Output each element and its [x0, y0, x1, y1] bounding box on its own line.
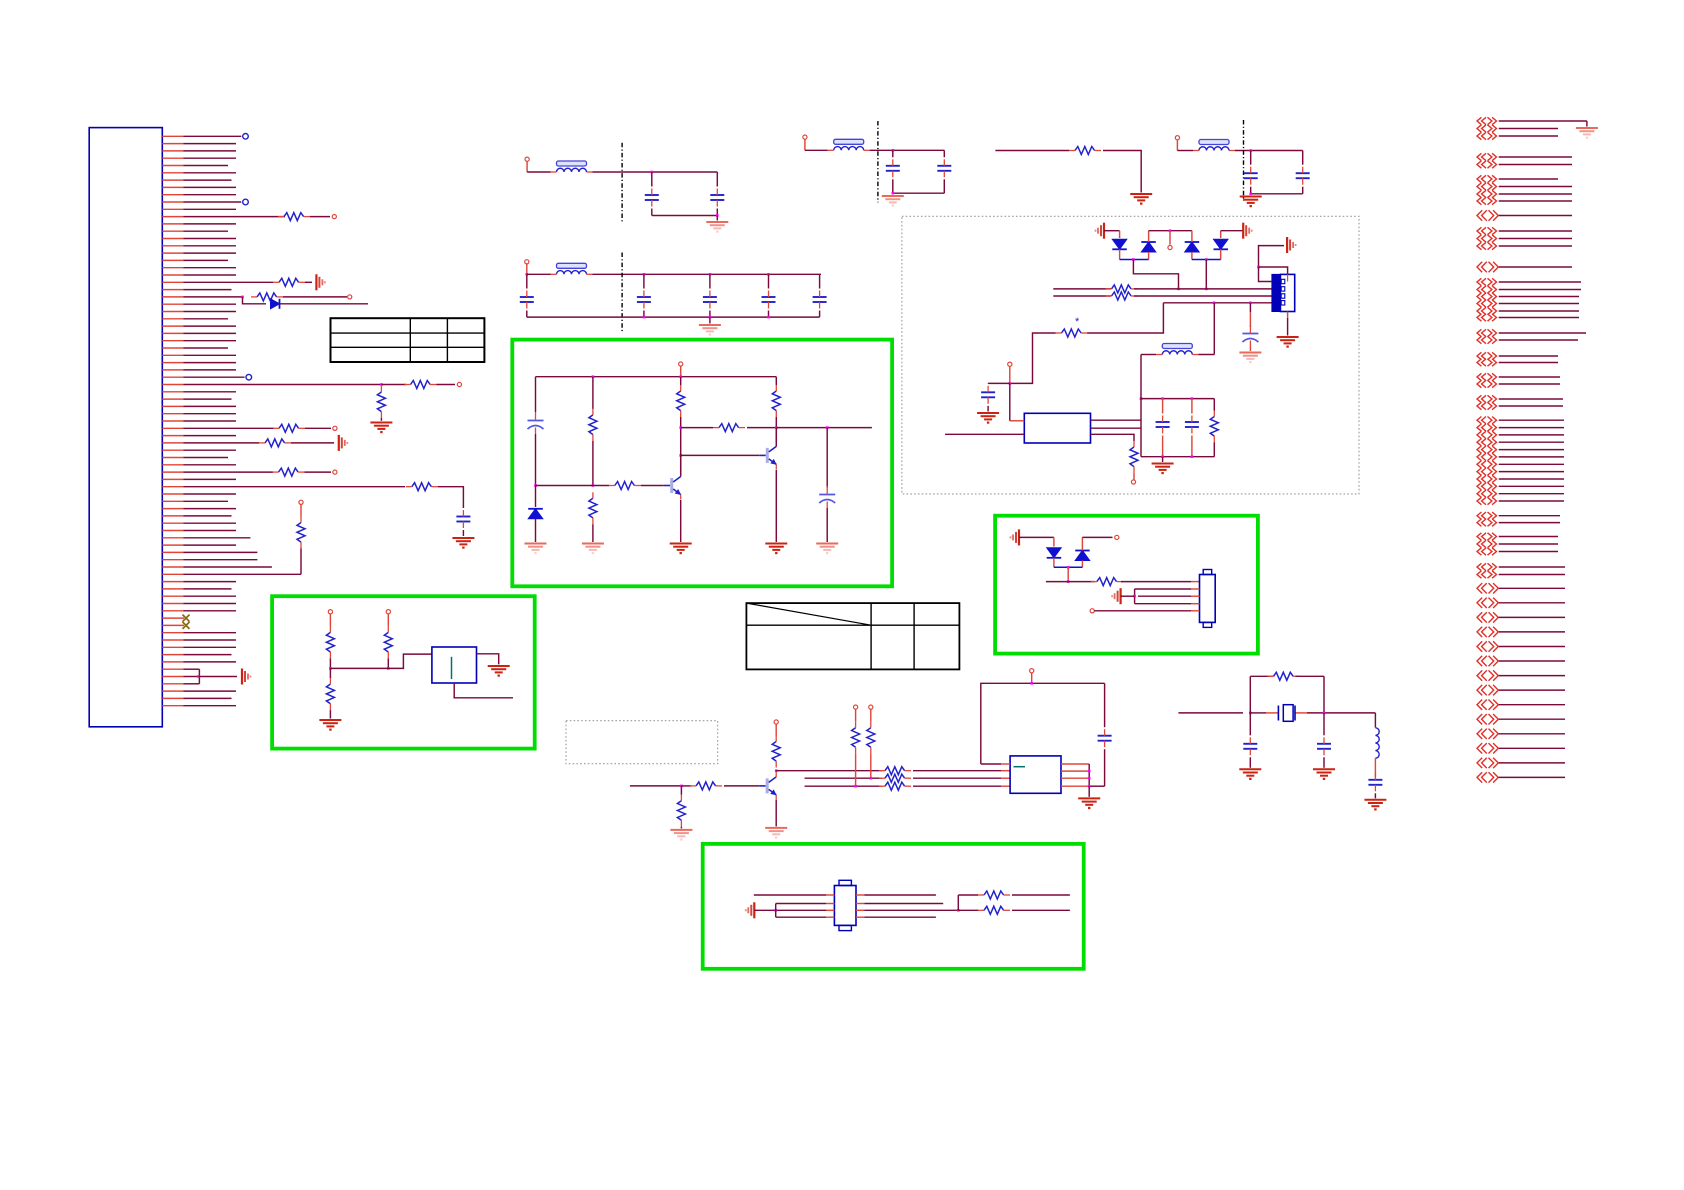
Q1 emitter wire [680, 500, 682, 542]
D6 top wire [1082, 536, 1112, 538]
node reg A [329, 667, 332, 670]
reg B stub [387, 614, 389, 627]
pin 75 wire [162, 676, 183, 678]
C6 leads [768, 274, 770, 288]
offpage port 10 [1477, 210, 1482, 220]
inductor branch vert [1374, 713, 1376, 728]
bead right vert [1213, 303, 1215, 355]
node amp left [534, 484, 537, 487]
pin 10 wire [162, 201, 183, 203]
pin 13 wire [162, 223, 183, 225]
ground Q3 [765, 827, 787, 829]
resistor RC2 [772, 391, 780, 411]
node U3 o2 [1088, 770, 1091, 773]
ground F3 [882, 195, 904, 197]
C-AGC top lead [987, 382, 989, 384]
C8 leads [892, 150, 894, 157]
ground tuner bottom [1277, 336, 1299, 338]
diode DA [528, 509, 543, 519]
C-IF3 gnd lead [1249, 347, 1251, 351]
pin 76 wire [162, 683, 183, 685]
offpage port 60 [1477, 758, 1482, 768]
D5 bottom lead [1053, 558, 1055, 568]
ground C-AGC [977, 412, 999, 414]
AV pair drop [1067, 567, 1069, 581]
green frame amp [512, 340, 892, 587]
pin 61 wire [162, 573, 183, 575]
ground RG lower [319, 719, 341, 721]
resistor bus1 [1112, 285, 1132, 293]
RQ3 pd leads [680, 786, 682, 795]
terminal pullup2 [869, 705, 873, 709]
U3 loop right vert [1104, 683, 1106, 727]
RB to base wire [641, 485, 664, 487]
ferrite bead FB4 [1199, 140, 1229, 145]
offpage port 51 [1477, 627, 1482, 637]
amp out wire [776, 427, 872, 429]
tuner connector pin 4 [1281, 301, 1285, 305]
D2 leads [1148, 231, 1150, 242]
crystal X1 [1283, 705, 1293, 722]
green frame AV [995, 516, 1258, 654]
offpage port 47 [1477, 571, 1481, 578]
pin 35 wire [162, 384, 183, 386]
node U3 VCC [1030, 682, 1033, 685]
resistor IF out [1130, 447, 1138, 467]
ferrite bead FB2 [557, 263, 587, 268]
tuner gnd wire [1259, 246, 1285, 267]
capacitor C7 [813, 296, 827, 298]
amp base wire [536, 485, 610, 487]
D4 leads [1220, 231, 1222, 238]
pin 59 wire [162, 559, 183, 561]
node reg B [387, 667, 390, 670]
offpage port 45 [1477, 548, 1481, 555]
SAW in2 wire [776, 903, 826, 905]
offpage port 31 [1477, 431, 1481, 438]
node Q1 coll [679, 454, 682, 457]
node AGC [1009, 382, 1012, 385]
C4 leads [643, 274, 645, 288]
offpage port 58 [1477, 729, 1482, 739]
node pair2 [1205, 258, 1208, 261]
LC gnd stub [1162, 457, 1164, 462]
node F2 r2 [709, 273, 712, 276]
AV pin4 wire [1135, 603, 1191, 605]
bus wire B2 [805, 777, 882, 779]
signal ground SAW [753, 902, 755, 918]
terminal pin 41 [333, 426, 337, 430]
terminal pin 34 [246, 374, 252, 380]
tuner gnd branch B [1259, 267, 1272, 282]
terminal U3 VCC [1030, 669, 1034, 673]
U3 loop left pin [981, 763, 1001, 765]
resistor RP1 [852, 728, 860, 748]
node SAW gnd [774, 909, 777, 912]
amp top rail [536, 376, 777, 378]
pin 21 wire [162, 281, 183, 283]
offpage port 54 [1477, 670, 1482, 680]
node F2 b1 [643, 316, 646, 319]
cap CO lead [826, 428, 828, 488]
offpage port 20 [1477, 314, 1481, 321]
bus wire IF2 [1053, 295, 1111, 297]
pair1 bottom wire [1120, 259, 1149, 261]
offpage port 37 [1477, 475, 1481, 482]
ground CX3 [1364, 799, 1386, 801]
capacitor LC1 [1156, 421, 1170, 423]
D1 bottom lead [1119, 249, 1121, 259]
offpage port 34 [1477, 453, 1481, 460]
resistor RC1 [677, 391, 685, 411]
Q3 input wire [630, 785, 682, 787]
RS1 out wire [1012, 894, 1070, 896]
F2 gnd stub [709, 317, 711, 323]
LC res leads [1213, 399, 1215, 411]
offpage port 8 [1477, 190, 1481, 197]
separator dashed line [621, 143, 623, 224]
resistor RB1 [885, 767, 905, 775]
bus wire B3b [913, 785, 1001, 787]
resistor on pin 47 [279, 468, 299, 476]
pin 30 wire [162, 347, 183, 349]
pin 52 wire [162, 508, 183, 510]
pin 77 wire [162, 690, 183, 692]
connector P1 outline [89, 128, 162, 727]
node LC rail left [1140, 397, 1143, 400]
terminal pin 10 [243, 199, 249, 205]
SAW bracket [775, 904, 777, 918]
terminal amp VCC [679, 362, 683, 366]
resistor bus2 [1112, 292, 1132, 300]
node IF3 bead [1213, 302, 1216, 305]
U2 pin1 wire [1010, 420, 1025, 422]
F2 input stub [526, 264, 528, 274]
dotted note box [566, 721, 718, 764]
AV pin2 wire [1135, 588, 1191, 590]
F4 rail [1235, 150, 1303, 152]
resistor R run [1075, 147, 1095, 155]
LC bottom rail [1141, 456, 1214, 458]
node pullup2 [870, 777, 873, 780]
capacitor CA polarized [528, 420, 544, 422]
node F1 gnd [716, 214, 719, 217]
U3 mark [1014, 766, 1026, 768]
offpage port 38 [1477, 483, 1481, 490]
terminal pin 47 [333, 470, 337, 474]
node AV video [1067, 580, 1070, 583]
node F2 in [526, 273, 529, 276]
bus wire IF3 [1163, 302, 1272, 304]
C11 leads [1302, 151, 1304, 165]
antenna stub [1169, 231, 1171, 245]
node LC c1 [1161, 397, 1164, 400]
ferrite bead FB5 [1162, 344, 1192, 349]
resistor RA1 [589, 415, 597, 435]
offpage port 16 [1477, 286, 1481, 293]
capacitor C10 [1244, 172, 1258, 174]
offpage gnd drop [1586, 121, 1588, 127]
offpage port 13 [1477, 242, 1481, 249]
F3 bottom rail [893, 192, 945, 194]
pullup2 stub [870, 709, 872, 722]
offpage port 29 [1477, 417, 1481, 424]
xtal feedback left vert [1249, 676, 1251, 713]
offpage port 39 [1477, 490, 1481, 497]
bracket gnd wire [199, 676, 238, 678]
RA1 leads [592, 377, 594, 409]
pin 19 wire [162, 267, 183, 269]
offpage port 30 [1477, 424, 1481, 431]
offpage port 7 [1477, 183, 1481, 190]
pin 40 wire [162, 420, 183, 422]
pullup2 wire [870, 754, 872, 779]
bead circuit left vert [1140, 355, 1142, 399]
offpage port 5 [1477, 161, 1481, 168]
AV jack body [1200, 575, 1216, 623]
pin 41 wire [162, 427, 183, 429]
LC1 leads [1162, 399, 1164, 414]
U3 out tie [1088, 764, 1090, 786]
capacitor C4 [637, 296, 651, 298]
pullup1 stub [855, 709, 857, 722]
pin 54 wire [162, 522, 183, 524]
U3 out3 [1061, 777, 1089, 779]
D1 lead [1119, 231, 1121, 238]
SAW upper out wire [958, 894, 978, 896]
bus wire B1b [913, 770, 1001, 772]
capacitor C3 [520, 296, 534, 298]
resistor AGC variable [1062, 329, 1082, 337]
RA2 gnd lead [592, 524, 594, 542]
pullup wire [300, 549, 302, 575]
pin 38 wire [162, 405, 183, 407]
CA bottom lead [535, 434, 537, 486]
node F3 [892, 149, 895, 152]
LC left vertical [1140, 399, 1142, 457]
diode D1 [1112, 239, 1127, 249]
pin 22 wire [162, 289, 183, 291]
ground C-IF3 [1239, 352, 1261, 354]
node bracket [197, 675, 200, 678]
pin 9 wire [162, 194, 183, 196]
C1 bottom lead [651, 209, 653, 216]
resistor RS1 [984, 891, 1004, 899]
pin 55 wire [162, 530, 183, 532]
capacitor C5 [703, 296, 717, 298]
node pin 35 [380, 383, 383, 386]
tuner connector body [1272, 274, 1281, 311]
AV gnd wire [1019, 536, 1054, 538]
capacitor C11 [1296, 172, 1310, 174]
ground F1 [706, 221, 728, 223]
wire run to gnd [1103, 151, 1141, 193]
pin 25 wire [162, 311, 183, 313]
pin 33 wire [162, 369, 183, 371]
U2 outC wire [1091, 434, 1135, 441]
signal ground AV2 [1119, 588, 1121, 604]
pin 68 no-connect [162, 624, 184, 626]
signal ground D1 (mirrored) [1103, 223, 1105, 239]
node Q3 coll [775, 769, 778, 772]
U2 input wire [945, 433, 1024, 435]
SAW gnd wire [754, 909, 826, 911]
node pin 23 [241, 296, 244, 299]
CX1 gnd lead [1249, 757, 1251, 768]
resistor on pin 41 [279, 424, 299, 432]
pin 64 wire [162, 595, 183, 597]
node LC b2 [1191, 455, 1194, 458]
resistor RB Q1 [615, 482, 635, 490]
pin 8 wire [162, 186, 183, 188]
capacitor CO polarized [819, 494, 835, 496]
signal ground bracket [241, 669, 243, 685]
F1 wire left [527, 171, 550, 173]
ground U4 [488, 665, 510, 667]
pin 78 wire [162, 697, 183, 699]
separator dashed line 2 [621, 253, 623, 334]
xtal feedback right vert [1323, 676, 1325, 713]
RQ3 coll stub [775, 724, 777, 736]
node F2 r1 [643, 273, 646, 276]
Q2 emitter wire [775, 470, 777, 542]
pin 12 wire [162, 216, 183, 218]
offpage port 4 [1477, 153, 1481, 160]
divider resistor vertical [377, 392, 385, 412]
offpage port 2 [1477, 125, 1481, 132]
pin 66 wire [162, 610, 183, 612]
pair1 drop wire [1133, 260, 1178, 289]
SAW out bracket [957, 895, 959, 910]
F1 bottom rail [652, 215, 718, 217]
RG1 lower leads [329, 668, 331, 678]
diode top rail [1149, 230, 1192, 232]
capacitor C1 [645, 194, 659, 196]
wire VCC run [995, 150, 1069, 152]
F1 rail [593, 171, 718, 173]
pin 20 wire [162, 274, 183, 276]
cap C1 lead [651, 172, 653, 187]
pin 21 gnd wire [305, 281, 312, 283]
base wire Q3 [724, 785, 759, 787]
terminal pin 35 [457, 382, 461, 386]
node IF3 cap [1249, 302, 1252, 305]
offpage port 32 [1477, 439, 1481, 446]
capacitor C-AGC [981, 391, 995, 393]
pin 58 wire [162, 551, 183, 553]
terminal reg B [386, 610, 390, 614]
resistor RQ3 pulldown [677, 801, 685, 821]
RG1 lower resistor [326, 684, 334, 704]
ground Q2 [765, 543, 787, 545]
pin 49 wire [162, 486, 183, 488]
offpage port 14 [1477, 262, 1482, 272]
node bus1 tap2 [1205, 288, 1208, 291]
offpage port 17 [1477, 293, 1481, 300]
F4 wire left [1177, 150, 1193, 152]
pin 50 wire [162, 493, 183, 495]
offpage port 59 [1477, 743, 1482, 753]
pin 71 wire [162, 646, 183, 648]
resistor RG1 [326, 632, 334, 652]
offpage port 9 [1477, 197, 1481, 204]
pin 37 wire [162, 398, 183, 400]
ground RQ3 [670, 829, 692, 831]
LX lower lead [1374, 758, 1376, 777]
reg junction wire [330, 654, 432, 668]
green frame regulator [272, 596, 535, 748]
offpage port 23 [1477, 352, 1481, 359]
offpage port 28 [1477, 402, 1481, 409]
terminal antenna [1168, 245, 1172, 249]
RF right wire [747, 427, 776, 429]
node F3 gnd [892, 192, 895, 195]
offpage port 15 [1477, 278, 1481, 285]
node AV bracket [1133, 595, 1136, 598]
C5 leads [709, 274, 711, 288]
node amp mid [592, 484, 595, 487]
pin 3 wire [162, 150, 183, 152]
diode D5 lead [1053, 537, 1055, 546]
terminal F1 input [525, 157, 529, 161]
C-IF3 lead [1249, 303, 1251, 312]
resistor on pin 43 [265, 439, 285, 447]
pin 44 wire [162, 449, 183, 451]
F4 bottom rail [1251, 193, 1303, 195]
wire to terminal [437, 384, 456, 386]
pin 63 wire [162, 588, 183, 590]
bus wire IF2b [1134, 295, 1272, 297]
node tuner gnd [1257, 266, 1260, 269]
pin 47 wire [162, 471, 183, 473]
Q1 collector wire [680, 455, 682, 471]
pin 69 wire [162, 632, 183, 634]
pin 23 wire [162, 296, 183, 298]
SAW out1 wire [856, 894, 864, 896]
ground offpage [1576, 127, 1598, 129]
Q3 collector wire [775, 771, 777, 772]
offpage port 61 [1477, 772, 1482, 782]
ground run [1130, 193, 1152, 195]
D4 gnd wire [1221, 230, 1244, 232]
offpage port 36 [1477, 468, 1481, 475]
resistor RQ3 coll [772, 742, 780, 762]
cap AGC wire [988, 382, 1010, 384]
offpage port 26 [1477, 380, 1481, 387]
pin 34 wire [162, 376, 183, 378]
node F2 b2 [709, 316, 712, 319]
inductor LX [1375, 728, 1379, 758]
pin 4 wire [162, 157, 183, 159]
pin 5 wire [162, 165, 183, 167]
capacitor C U3 [1098, 735, 1112, 737]
offpage port 42 [1477, 519, 1481, 526]
F2 wire left [527, 273, 551, 275]
divider gnd wire [380, 418, 382, 421]
U3 loop left vert [981, 683, 1105, 764]
ground F2 [699, 324, 721, 326]
node LC b1 [1161, 455, 1164, 458]
pin 46 wire [162, 464, 183, 466]
cap X1a lead [1249, 713, 1251, 735]
node pullup1 [854, 785, 857, 788]
diode D4 [1214, 239, 1229, 249]
SAW out3 wire [856, 909, 864, 911]
pin 53 wire [162, 515, 183, 517]
resistor RP2 [867, 728, 875, 748]
pin 70 wire [162, 639, 183, 641]
IC U3 box [1010, 756, 1061, 793]
